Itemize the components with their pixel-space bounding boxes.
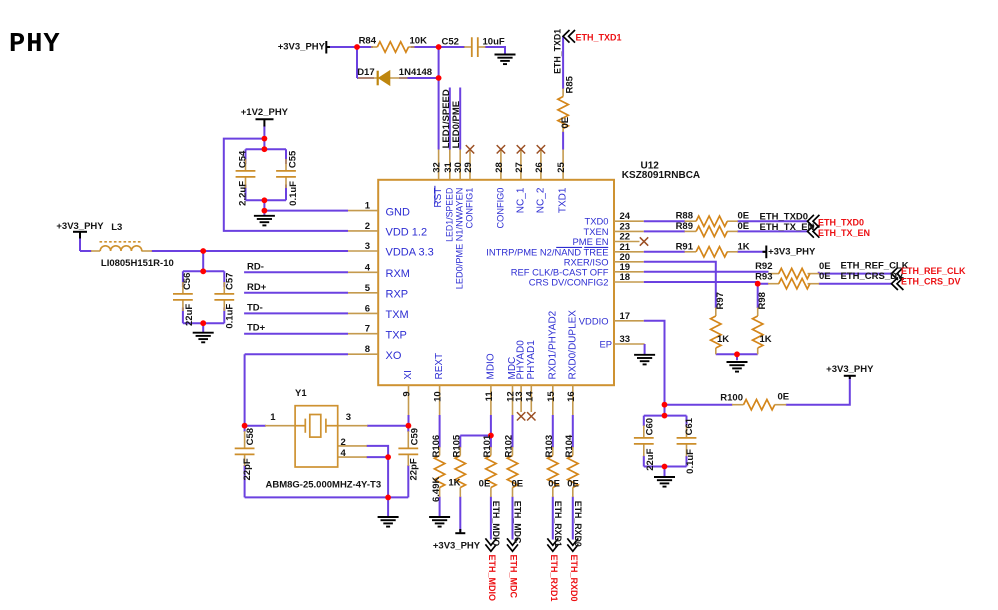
svg-text:EP: EP [599,339,612,350]
svg-text:7: 7 [365,324,370,335]
svg-text:1K: 1K [717,334,729,345]
svg-text:ETH_CRS_DV: ETH_CRS_DV [901,277,961,287]
svg-text:31: 31 [443,162,454,173]
svg-text:C61: C61 [684,417,695,435]
svg-text:CONFIG0: CONFIG0 [495,188,505,229]
svg-text:R103: R103 [544,435,555,458]
svg-text:C54: C54 [237,150,248,168]
svg-text:CRS DV/CONFIG2: CRS DV/CONFIG2 [529,277,609,288]
svg-text:4: 4 [365,262,371,273]
svg-text:0.1uF: 0.1uF [685,449,696,474]
svg-text:TXD1: TXD1 [558,187,569,213]
svg-text:ETH_MDIO: ETH_MDIO [491,501,501,547]
svg-text:0E: 0E [778,392,790,403]
svg-text:8: 8 [365,344,370,355]
svg-text:1N4148: 1N4148 [399,67,432,78]
svg-text:0E: 0E [560,117,571,129]
svg-text:10K: 10K [410,36,428,47]
svg-text:R102: R102 [504,435,515,458]
svg-text:GND: GND [386,206,411,218]
svg-text:LED0/PME: LED0/PME [451,101,462,149]
svg-text:+3V3_PHY: +3V3_PHY [768,247,816,258]
svg-text:RXM: RXM [386,268,410,280]
svg-text:LED0/PME N1/NWAYEN: LED0/PME N1/NWAYEN [455,188,465,290]
svg-text:LI0805H151R-10: LI0805H151R-10 [101,258,174,269]
svg-text:ETH_CRS_DV: ETH_CRS_DV [841,271,904,282]
svg-text:R84: R84 [359,36,377,47]
svg-text:C55: C55 [288,150,299,168]
svg-text:REXT: REXT [434,353,445,380]
svg-text:4: 4 [341,448,347,459]
svg-text:NC_1: NC_1 [515,187,526,213]
svg-text:XI: XI [403,370,414,379]
svg-text:2: 2 [365,221,370,232]
svg-text:L3: L3 [111,222,122,233]
svg-text:R93: R93 [755,271,772,282]
svg-text:ETH_TXD1: ETH_TXD1 [553,29,563,74]
svg-text:C56: C56 [182,273,193,290]
svg-text:22uF: 22uF [645,448,656,470]
svg-text:29: 29 [463,162,474,173]
svg-text:1K: 1K [760,334,772,345]
svg-text:RXD1/PHYAD2: RXD1/PHYAD2 [547,310,558,379]
svg-text:ETH_TXD0: ETH_TXD0 [818,218,864,228]
svg-text:ETH_TXD1: ETH_TXD1 [576,33,622,43]
svg-text:6: 6 [365,303,370,314]
svg-text:LED1/SPEED: LED1/SPEED [444,188,454,242]
svg-text:R85: R85 [565,75,576,93]
svg-text:9: 9 [402,391,413,396]
svg-text:22pF: 22pF [409,458,420,480]
svg-text:3: 3 [346,412,351,423]
svg-text:0E: 0E [548,479,560,490]
svg-text:R101: R101 [482,434,493,457]
svg-text:1K: 1K [448,478,460,489]
svg-text:16: 16 [566,391,577,402]
svg-text:R97: R97 [715,292,726,309]
svg-text:10: 10 [433,391,444,402]
svg-text:C58: C58 [245,428,256,445]
svg-text:ETH_MDC: ETH_MDC [509,555,519,599]
svg-text:RD-: RD- [247,261,264,272]
svg-text:XO: XO [386,350,402,362]
svg-text:ETH_TX_EN: ETH_TX_EN [818,228,870,238]
svg-text:C52: C52 [442,37,459,48]
svg-text:25: 25 [556,162,567,173]
svg-text:ETH_RXD1: ETH_RXD1 [549,555,559,602]
svg-text:+3V3_PHY: +3V3_PHY [56,221,104,232]
svg-text:1: 1 [270,412,276,423]
svg-text:RXD0/DUPLEX: RXD0/DUPLEX [567,310,578,380]
svg-text:LED1/SPEED: LED1/SPEED [441,89,452,148]
svg-text:10uF: 10uF [483,37,505,48]
svg-text:VDD 1.2: VDD 1.2 [386,227,428,239]
svg-text:R105: R105 [452,434,463,457]
svg-text:TXP: TXP [386,329,407,341]
svg-text:R100: R100 [720,393,743,404]
svg-text:C57: C57 [225,273,236,290]
svg-text:VDDA 3.3: VDDA 3.3 [386,247,434,259]
svg-text:RXP: RXP [386,289,409,301]
svg-text:33: 33 [620,334,631,345]
svg-text:ETH_RXD1: ETH_RXD1 [553,501,563,547]
svg-text:ETH_RXD0: ETH_RXD0 [573,501,583,547]
svg-text:32: 32 [432,162,443,173]
svg-text:R98: R98 [757,292,768,309]
svg-text:+3V3_PHY: +3V3_PHY [433,541,481,552]
svg-text:C59: C59 [409,428,420,445]
svg-text:0E: 0E [567,479,579,490]
svg-text:22pF: 22pF [242,458,253,480]
svg-text:R89: R89 [676,221,693,232]
svg-text:ETH_REF_CLK: ETH_REF_CLK [901,266,966,276]
svg-text:0E: 0E [479,479,491,490]
svg-text:28: 28 [494,162,505,173]
svg-text:ETH_RXD0: ETH_RXD0 [569,555,579,602]
svg-text:PHY: PHY [9,30,61,60]
svg-text:0E: 0E [512,479,524,490]
svg-text:2: 2 [341,437,346,448]
svg-text:NC_2: NC_2 [535,187,546,213]
svg-text:15: 15 [546,391,557,402]
svg-text:TD-: TD- [247,302,263,313]
svg-text:1: 1 [365,201,371,212]
svg-text:+1V2_PHY: +1V2_PHY [241,107,289,118]
svg-text:KSZ8091RNBCA: KSZ8091RNBCA [622,170,700,181]
svg-text:MDIO: MDIO [485,353,496,379]
svg-text:27: 27 [514,162,525,173]
svg-text:26: 26 [534,162,545,173]
svg-text:CONFIG1: CONFIG1 [465,188,475,229]
svg-text:3: 3 [365,241,370,252]
svg-text:6.49K: 6.49K [431,477,442,502]
svg-text:ETH_MDIO: ETH_MDIO [487,555,497,602]
svg-text:0E: 0E [738,221,750,232]
svg-text:ETH_TX_EN: ETH_TX_EN [760,222,815,233]
svg-text:R104: R104 [564,434,575,457]
svg-text:+3V3_PHY: +3V3_PHY [278,42,326,53]
svg-text:2.2uF: 2.2uF [237,181,248,206]
svg-text:TD+: TD+ [247,323,266,334]
svg-text:11: 11 [484,391,495,402]
svg-text:17: 17 [620,311,631,322]
svg-text:PHYAD1: PHYAD1 [526,340,537,380]
svg-text:22uF: 22uF [184,304,195,326]
svg-text:C60: C60 [645,418,656,435]
svg-text:ETH_MDC: ETH_MDC [513,501,523,544]
svg-text:R91: R91 [676,241,694,252]
svg-text:5: 5 [365,283,371,294]
svg-text:TXM: TXM [386,309,409,321]
svg-text:14: 14 [524,391,535,402]
svg-text:1K: 1K [738,241,750,252]
svg-text:+3V3_PHY: +3V3_PHY [826,364,874,375]
svg-text:Y1: Y1 [295,388,307,399]
svg-text:R106: R106 [431,435,442,458]
svg-text:RD+: RD+ [247,282,267,293]
svg-text:0.1uF: 0.1uF [288,181,299,206]
svg-text:ABM8G-25.000MHZ-4Y-T3: ABM8G-25.000MHZ-4Y-T3 [266,480,382,491]
svg-text:0E: 0E [819,271,831,282]
svg-text:0.1uF: 0.1uF [225,304,236,329]
svg-text:VDDIO: VDDIO [579,315,609,326]
svg-text:18: 18 [620,272,631,283]
svg-text:D17: D17 [357,67,374,78]
svg-text:ETH_TXD0: ETH_TXD0 [760,212,809,223]
